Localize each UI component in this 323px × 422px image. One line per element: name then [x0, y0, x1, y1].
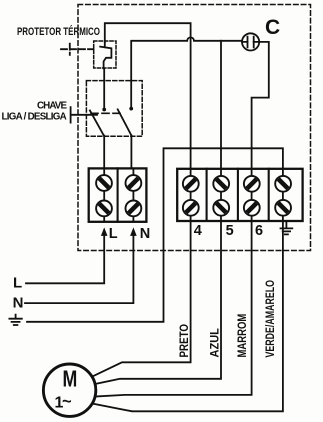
screw earth bottom	[275, 200, 291, 216]
dashed enclosure border	[78, 5, 311, 251]
screw earth top	[275, 176, 291, 192]
switch pole 2 contact dot	[129, 107, 133, 111]
wire through terminal 6	[251, 169, 253, 221]
wire PRETO: terminal 4 to motor	[93, 221, 191, 376]
svg-text:CHAVE: CHAVE	[37, 101, 67, 112]
svg-text:AZUL: AZUL	[210, 328, 222, 357]
switch pole 2 blade	[118, 109, 132, 135]
wire through terminal N	[132, 168, 134, 221]
wire through terminal 5	[220, 169, 222, 221]
svg-text:VERDE/AMARELO: VERDE/AMARELO	[265, 280, 277, 358]
wire B: switch pole 2 to capacitor with hump over wire A	[131, 37, 242, 108]
screw 5 bottom	[213, 200, 229, 216]
wire: capacitor to terminal 6	[252, 42, 269, 170]
switch coupling bar	[91, 112, 120, 114]
screw L bottom	[96, 201, 112, 217]
svg-text:MARROM: MARROM	[237, 314, 249, 358]
right block dividers	[207, 169, 269, 221]
svg-text:LIGA / DESLIGA: LIGA / DESLIGA	[2, 111, 67, 122]
earth terminal symbol	[281, 222, 293, 235]
arrow into terminal L	[101, 227, 108, 236]
svg-text:N: N	[140, 226, 150, 242]
right terminal block	[177, 169, 302, 221]
wire: pole 1 to terminal L	[103, 136, 105, 170]
left terminal block	[89, 168, 147, 221]
screw 4 bottom	[183, 200, 199, 216]
svg-text:N: N	[13, 295, 24, 312]
supply wire L with arrow	[26, 236, 104, 283]
wire A: protector top to terminal 4	[105, 23, 191, 169]
screw N bottom	[125, 201, 141, 217]
arrow into terminal N	[130, 227, 137, 236]
supply ground symbol	[9, 315, 21, 325]
svg-text:L: L	[109, 226, 118, 242]
screw 6 bottom	[244, 200, 260, 216]
thermal protector symbol	[100, 41, 111, 68]
wire MARROM: terminal 6 to motor	[95, 221, 251, 397]
switch dashed box	[86, 81, 142, 137]
left block divider	[117, 168, 119, 221]
svg-text:M: M	[63, 365, 78, 391]
svg-text:5: 5	[226, 223, 234, 239]
wire through terminal 4	[190, 169, 192, 221]
svg-text:L: L	[13, 274, 22, 291]
screw 4 top	[183, 176, 199, 192]
wire: B branch to terminal 5	[220, 41, 222, 170]
wire VERDE/AMARELO: earth terminal to motor	[92, 221, 283, 411]
supply wire N with arrow	[25, 236, 133, 303]
svg-text:C: C	[265, 16, 280, 39]
wire through earth terminal	[282, 169, 284, 221]
pointer to protector	[61, 44, 94, 55]
svg-text:~: ~	[62, 393, 72, 411]
wire: pole 2 to terminal N	[130, 136, 132, 170]
protector dashed box	[94, 41, 116, 68]
screw N top	[125, 175, 141, 191]
switch pole 1 contact dot	[102, 108, 106, 112]
pointer to switch	[71, 107, 97, 122]
wire: protector bottom to switch pole 1	[103, 68, 105, 108]
svg-text:PROTETOR TÉRMICO: PROTETOR TÉRMICO	[17, 25, 100, 38]
capacitor C1	[242, 33, 259, 50]
svg-text:4: 4	[194, 223, 202, 239]
switch pole 1 blade	[90, 111, 104, 136]
wire AZUL: terminal 5 to motor	[95, 221, 221, 384]
screw L top	[96, 175, 112, 191]
screw 5 top	[213, 176, 229, 192]
wire D: ground riser to earth terminal	[27, 148, 283, 321]
svg-text:PRETO: PRETO	[179, 324, 191, 358]
wire through terminal L	[103, 168, 105, 221]
screw 6 top	[244, 176, 260, 192]
svg-text:6: 6	[255, 223, 263, 239]
motor M1	[43, 364, 95, 416]
